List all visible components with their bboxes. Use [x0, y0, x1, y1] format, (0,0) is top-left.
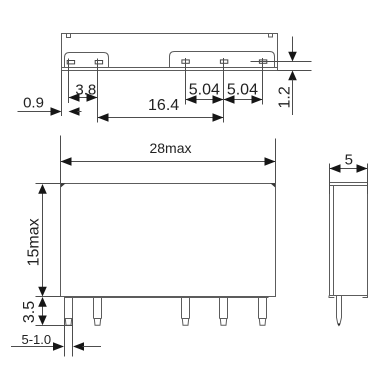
bottom view slot 1 [65, 53, 109, 68]
svg-text:15max: 15max [25, 218, 42, 266]
front pin 3 [182, 297, 190, 326]
svg-text:5.04: 5.04 [227, 81, 258, 98]
svg-text:3.5: 3.5 [21, 301, 38, 323]
front pin 5 [259, 297, 267, 326]
pin 2 cross-section [95, 59, 102, 123]
dimension 5.04 (pin4-pin5) [224, 81, 263, 103]
svg-text:28max: 28max [149, 140, 191, 156]
side view pin [337, 296, 342, 326]
dimension 3.8 [69, 81, 98, 101]
svg-text:5.04: 5.04 [189, 81, 220, 98]
dimension 0.9 [18, 71, 82, 117]
bottom view body [62, 34, 278, 71]
pin 3 cross-section [182, 58, 189, 105]
svg-text:16.4: 16.4 [148, 97, 179, 114]
side view left seam [333, 186, 335, 296]
svg-text:5: 5 [345, 152, 353, 169]
bottom view slot 2 [170, 52, 275, 68]
front view top-right corner chamfer [270, 183, 275, 187]
dimension 15max [25, 184, 60, 297]
dimension 3.5 [21, 297, 73, 326]
bottom view ledge line [62, 67, 278, 69]
bottom view right notch [269, 34, 273, 38]
front pin 2 [94, 297, 102, 326]
pin 1 width extension lines [65, 319, 73, 357]
svg-text:5-1.0: 5-1.0 [22, 332, 52, 347]
side view body [330, 183, 368, 296]
front view body [61, 184, 276, 297]
pin 4 cross-section [220, 58, 227, 123]
pin 5 centerline extension [251, 61, 312, 63]
dimension 28max [61, 136, 276, 197]
front pin 1 [65, 297, 73, 326]
dimension 1.2 [277, 37, 297, 116]
dimension 16.4 [98, 97, 224, 122]
body bottom edge extension [278, 70, 312, 72]
bottom view left notch [67, 34, 71, 38]
front view top-left corner chamfer [61, 183, 66, 187]
pin 5 cross-section [259, 58, 266, 105]
svg-text:1.2: 1.2 [277, 86, 294, 108]
dimension 5 (side) [330, 152, 368, 195]
front pin 4 [220, 297, 228, 326]
svg-text:0.9: 0.9 [23, 95, 44, 112]
side view bottom feet [329, 296, 334, 298]
pin 1 cross-section [67, 59, 74, 104]
dimension 5-1.0 [11, 332, 101, 351]
dimension 5.04 (pin3-pin4) [186, 81, 263, 103]
side view top seam [330, 185, 368, 187]
front view bottom lip [64, 297, 269, 299]
